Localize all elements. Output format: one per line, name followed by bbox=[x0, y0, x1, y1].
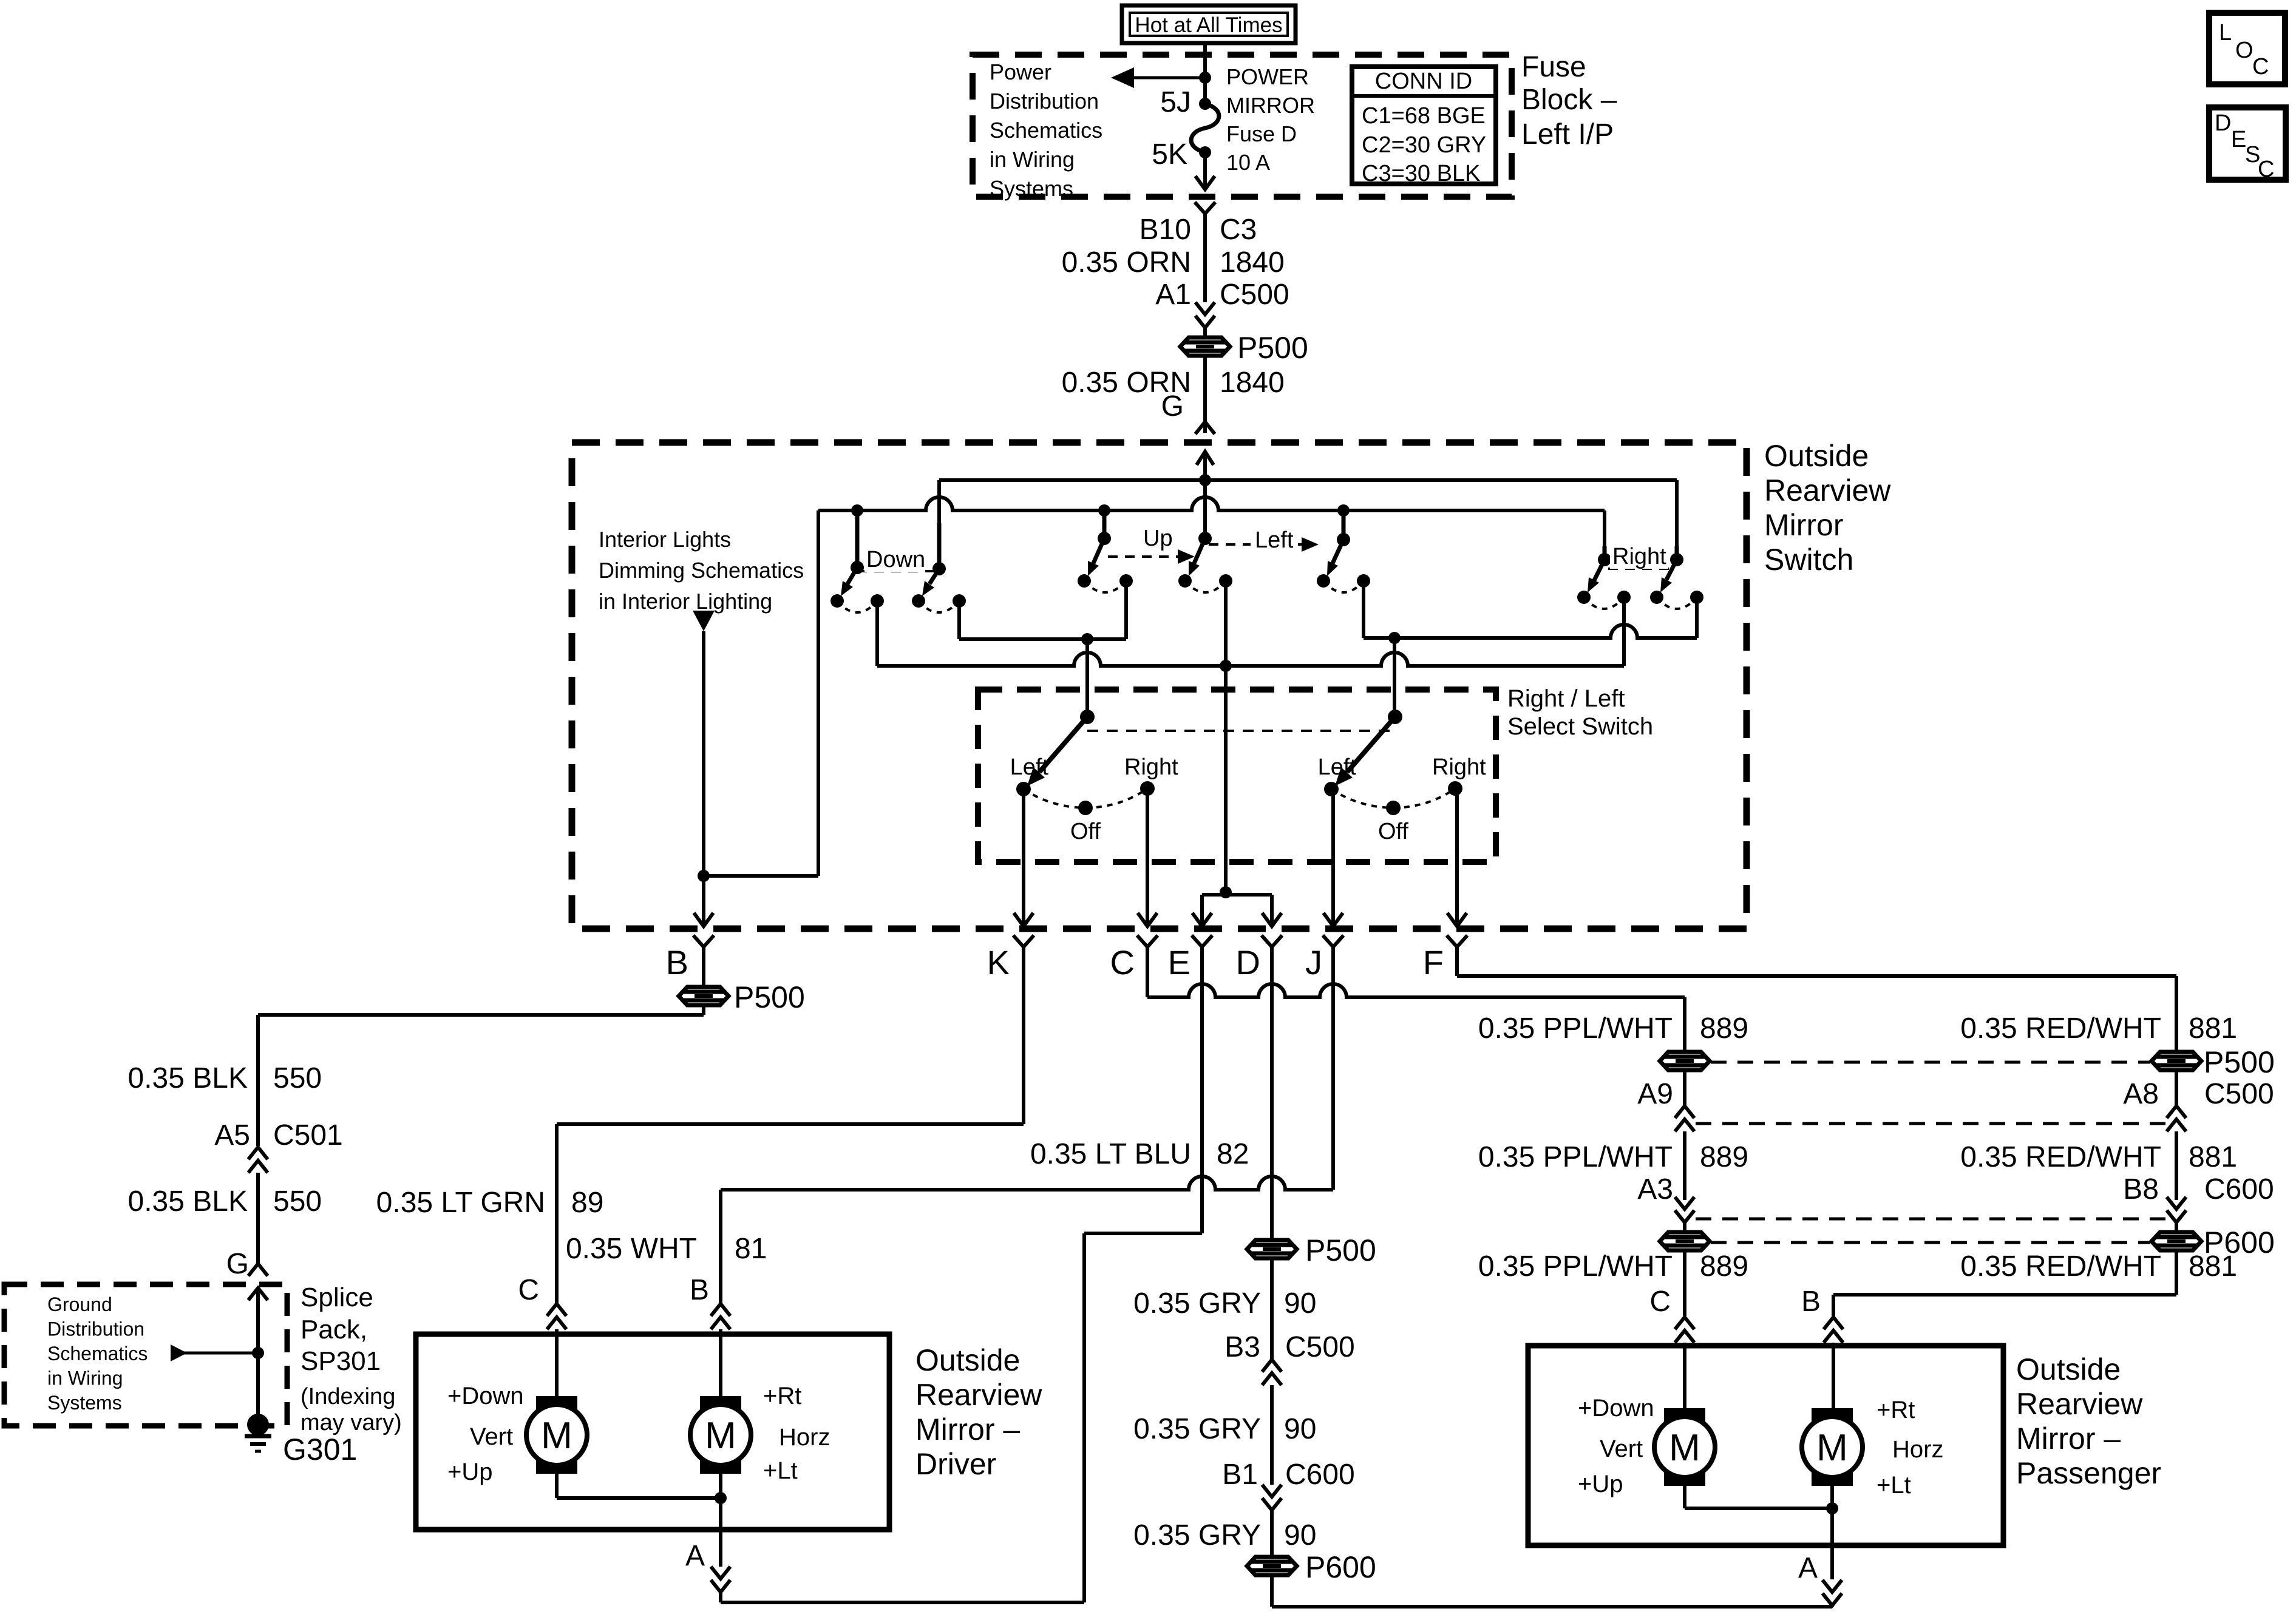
svg-text:C: C bbox=[2258, 157, 2274, 182]
svg-text:Off: Off bbox=[1070, 819, 1101, 844]
svg-text:Left: Left bbox=[1255, 527, 1294, 553]
wire: 0.35 ORN 1840 to switch bbox=[1203, 356, 1207, 422]
svg-text:Power: Power bbox=[990, 59, 1051, 84]
terminal J wire bbox=[1305, 795, 1343, 981]
svg-text:M: M bbox=[1669, 1427, 1700, 1469]
svg-text:881: 881 bbox=[2189, 1141, 2237, 1173]
svg-text:Switch: Switch bbox=[1764, 543, 1853, 577]
wire: select switch 2 feed bbox=[1393, 638, 1396, 717]
wire: driver common to E wire bbox=[721, 1601, 1084, 1604]
svg-text:P500: P500 bbox=[2204, 1045, 2275, 1079]
splice P500 on GRY wire bbox=[1247, 1240, 1297, 1258]
label: Outside Rearview Mirror Switch bbox=[1764, 439, 1891, 577]
svg-text:POWER: POWER bbox=[1226, 64, 1309, 89]
mech link Right bbox=[1608, 568, 1673, 570]
wire: C(switch) to passenger - goes right bbox=[1146, 947, 1149, 997]
splice P500 on ground wire bbox=[679, 987, 729, 1005]
svg-text:O: O bbox=[2235, 38, 2254, 63]
mech link select switches bbox=[1087, 730, 1390, 732]
svg-text:C500: C500 bbox=[1220, 279, 1289, 311]
label: Outside Rearview Mirror - Passenger bbox=[2016, 1352, 2161, 1490]
svg-text:M: M bbox=[541, 1415, 572, 1457]
label: Right / Left Select Switch bbox=[1507, 685, 1653, 740]
svg-text:Left I/P: Left I/P bbox=[1521, 118, 1614, 151]
wire: 0.35 BLK 550 to ground bbox=[702, 1006, 705, 1015]
svg-text:Left: Left bbox=[1010, 754, 1049, 780]
svg-text:B: B bbox=[1801, 1286, 1821, 1318]
svg-text:Right: Right bbox=[1124, 754, 1178, 780]
svg-text:881: 881 bbox=[2189, 1012, 2237, 1045]
svg-text:Horz: Horz bbox=[1892, 1436, 1943, 1463]
ground distribution dashed box bbox=[4, 1284, 287, 1426]
svg-text:0.35 WHT: 0.35 WHT bbox=[566, 1233, 697, 1265]
svg-text:Mirror –: Mirror – bbox=[915, 1412, 1020, 1446]
svg-text:Ground: Ground bbox=[47, 1293, 112, 1315]
svg-text:(Indexing: (Indexing bbox=[301, 1384, 395, 1409]
svg-text:C: C bbox=[518, 1274, 539, 1306]
wire: switch common to B bbox=[702, 631, 705, 925]
wire: 0.35 ORN 1840 circuit bbox=[1203, 214, 1207, 302]
wire: select switch 1 feed bbox=[1085, 639, 1089, 717]
svg-text:Pack,: Pack, bbox=[301, 1315, 367, 1344]
fuse: POWER MIRROR Fuse D 10 A bbox=[1191, 104, 1219, 152]
svg-text:Vert: Vert bbox=[1600, 1436, 1643, 1462]
switch Down element 2 bbox=[937, 480, 941, 498]
svg-text:Mirror: Mirror bbox=[1764, 508, 1844, 542]
svg-text:0.35 PPL/WHT: 0.35 PPL/WHT bbox=[1478, 1012, 1673, 1045]
svg-text:Dimming Schematics: Dimming Schematics bbox=[599, 558, 804, 583]
svg-text:K: K bbox=[987, 943, 1010, 981]
svg-text:C3: C3 bbox=[1220, 214, 1257, 246]
wire: E to driver mirror common - 0.35 LT BLU 82 bbox=[1200, 947, 1204, 1233]
svg-text:SP301: SP301 bbox=[301, 1346, 381, 1376]
svg-text:0.35 BLK: 0.35 BLK bbox=[128, 1185, 248, 1218]
svg-text:Schematics: Schematics bbox=[47, 1343, 148, 1364]
svg-text:C600: C600 bbox=[2204, 1173, 2274, 1205]
switch Left element 2 bbox=[1317, 510, 1370, 592]
svg-text:Right / Left: Right / Left bbox=[1507, 685, 1625, 712]
motor M horz driver bbox=[700, 1396, 741, 1411]
select common split to E and D bbox=[1220, 886, 1232, 898]
svg-text:Rearview: Rearview bbox=[1764, 473, 1891, 507]
svg-text:0.35 LT GRN: 0.35 LT GRN bbox=[376, 1187, 545, 1219]
power feed label box: Hot at All Times bbox=[1122, 5, 1296, 43]
svg-text:90: 90 bbox=[1284, 1519, 1316, 1551]
svg-text:0.35 PPL/WHT: 0.35 PPL/WHT bbox=[1478, 1141, 1673, 1173]
motor M vert passenger bbox=[1664, 1408, 1705, 1423]
arrow to Power Distribution Schematics bbox=[1130, 76, 1205, 80]
svg-text:Down: Down bbox=[866, 547, 925, 572]
svg-text:C: C bbox=[2252, 54, 2269, 80]
svg-text:881: 881 bbox=[2189, 1250, 2237, 1283]
svg-text:550: 550 bbox=[273, 1185, 322, 1218]
passenger mirror terminal A bbox=[1830, 1545, 1834, 1579]
svg-text:+Down: +Down bbox=[447, 1383, 524, 1409]
svg-text:G: G bbox=[226, 1248, 249, 1280]
svg-text:Systems: Systems bbox=[990, 176, 1073, 201]
svg-text:0.35 RED/WHT: 0.35 RED/WHT bbox=[1960, 1012, 2161, 1045]
arrow from ground distribution bbox=[171, 1344, 187, 1361]
wire: common return to bus 2 bbox=[704, 874, 818, 878]
svg-text:C: C bbox=[1110, 943, 1135, 981]
svg-text:D: D bbox=[1236, 943, 1260, 981]
svg-text:+Lt: +Lt bbox=[763, 1457, 798, 1484]
svg-text:0.35 PPL/WHT: 0.35 PPL/WHT bbox=[1478, 1250, 1673, 1283]
DESC reference box bbox=[2209, 107, 2286, 182]
svg-text:+Down: +Down bbox=[1578, 1395, 1654, 1422]
dashed link P600 bbox=[1711, 1241, 2150, 1244]
svg-text:90: 90 bbox=[1284, 1413, 1316, 1445]
terminal D wire bbox=[1236, 895, 1282, 981]
svg-text:Distribution: Distribution bbox=[990, 89, 1099, 114]
splice P500 PPL side bbox=[1660, 1052, 1710, 1070]
svg-text:81: 81 bbox=[735, 1233, 767, 1265]
terminal C wire bbox=[1110, 795, 1158, 981]
label: Ground Distribution Schematics in Wiring Systems bbox=[47, 1293, 148, 1414]
driver mirror terminal A bbox=[719, 1530, 722, 1567]
passenger motor labels bbox=[1578, 1395, 1943, 1499]
splice pack SP301 chevron bbox=[248, 1288, 268, 1300]
wire: RED/WHT to passenger B bbox=[1833, 1293, 2176, 1297]
switch Up element 1 bbox=[1078, 510, 1133, 592]
wire: passenger motors common bbox=[1683, 1486, 1686, 1508]
svg-text:A1: A1 bbox=[1155, 279, 1191, 311]
switch Left element 1 (fed from bus 1) bbox=[1178, 532, 1232, 592]
svg-text:C501: C501 bbox=[273, 1119, 343, 1151]
svg-text:C3=30 BLK: C3=30 BLK bbox=[1362, 161, 1480, 186]
bus line 2 (return) bbox=[818, 497, 1605, 510]
off-page arrow from Interior Lights bbox=[693, 611, 715, 631]
svg-text:C2=30 GRY: C2=30 GRY bbox=[1362, 132, 1486, 158]
svg-text:A5: A5 bbox=[214, 1119, 250, 1151]
wire: K to driver mirror C - 0.35 LT GRN 89 bbox=[1022, 947, 1025, 1124]
svg-text:in Interior Lighting: in Interior Lighting bbox=[599, 589, 772, 614]
driver motor labels bbox=[447, 1383, 830, 1485]
wire: Left1 contact to select common bbox=[1224, 581, 1228, 892]
svg-text:B10: B10 bbox=[1140, 214, 1191, 246]
svg-text:Outside: Outside bbox=[2016, 1352, 2121, 1386]
dashed connector line C600 bbox=[1696, 1218, 2165, 1221]
fuse block dashed box: Fuse Block - Left I/P bbox=[973, 55, 1512, 197]
svg-text:1840: 1840 bbox=[1220, 367, 1285, 399]
svg-text:C600: C600 bbox=[1285, 1459, 1355, 1491]
label: Splice Pack SP301 bbox=[301, 1283, 402, 1436]
svg-text:0.35 LT BLU: 0.35 LT BLU bbox=[1030, 1138, 1191, 1170]
svg-text:M: M bbox=[705, 1415, 736, 1457]
svg-text:Right: Right bbox=[1612, 544, 1666, 569]
svg-text:Outside: Outside bbox=[915, 1343, 1020, 1377]
splice P500 RED side bbox=[2152, 1052, 2201, 1070]
svg-text:Left: Left bbox=[1318, 754, 1357, 780]
label: Fuse Block - Left I/P bbox=[1521, 51, 1617, 151]
svg-text:E: E bbox=[1168, 943, 1190, 981]
wire: fuse output bbox=[1203, 152, 1207, 189]
wire: Down2/Up1 output link bbox=[957, 601, 961, 639]
switch Right element 2 bbox=[1675, 480, 1679, 560]
mech link Down bbox=[857, 570, 939, 572]
svg-text:M: M bbox=[1816, 1427, 1848, 1469]
select switch 2 (passenger) bbox=[1318, 710, 1487, 844]
svg-text:Horz: Horz bbox=[779, 1424, 830, 1451]
svg-text:Distribution: Distribution bbox=[47, 1318, 144, 1340]
mech link Up with arrow bbox=[1108, 555, 1183, 558]
terminal F wire bbox=[1423, 795, 1467, 981]
switch Right element 1 bbox=[1603, 510, 1606, 560]
CONN ID table bbox=[1352, 67, 1496, 186]
svg-text:0.35 GRY: 0.35 GRY bbox=[1133, 1413, 1261, 1445]
right/left select switch dashed box bbox=[978, 690, 1496, 862]
motor M horz passenger bbox=[1812, 1408, 1853, 1423]
svg-text:0.35 GRY: 0.35 GRY bbox=[1133, 1287, 1261, 1320]
wire: 0.35 PPL/WHT 889 (passenger vert) bbox=[1683, 997, 1686, 1052]
svg-text:A: A bbox=[685, 1540, 705, 1572]
svg-text:0.35 GRY: 0.35 GRY bbox=[1133, 1519, 1261, 1551]
svg-text:may vary): may vary) bbox=[301, 1410, 402, 1436]
wire: Left2/Right2 output link bbox=[1362, 581, 1365, 638]
svg-text:+Up: +Up bbox=[1578, 1471, 1623, 1497]
outside rearview mirror passenger box bbox=[1528, 1346, 2003, 1545]
svg-text:Splice: Splice bbox=[301, 1283, 373, 1312]
svg-text:Hot at All Times: Hot at All Times bbox=[1135, 13, 1282, 37]
svg-text:B: B bbox=[666, 943, 688, 981]
svg-text:5K: 5K bbox=[1152, 138, 1187, 171]
svg-text:+Lt: +Lt bbox=[1877, 1472, 1911, 1499]
svg-text:Off: Off bbox=[1378, 819, 1408, 844]
svg-text:B1: B1 bbox=[1222, 1459, 1258, 1491]
svg-text:Mirror –: Mirror – bbox=[2016, 1422, 2121, 1456]
svg-text:B: B bbox=[690, 1274, 709, 1306]
wire: GRY to passenger mirror A bbox=[1272, 1605, 1832, 1609]
svg-text:E: E bbox=[2231, 127, 2246, 152]
svg-text:889: 889 bbox=[1700, 1141, 1748, 1173]
svg-text:Driver: Driver bbox=[915, 1447, 996, 1481]
svg-text:P500: P500 bbox=[734, 980, 805, 1014]
svg-text:550: 550 bbox=[273, 1062, 322, 1094]
svg-text:5J: 5J bbox=[1160, 86, 1191, 118]
motor M vert driver bbox=[536, 1396, 577, 1411]
dashed connector line C500 bbox=[1696, 1122, 2165, 1125]
select switch 1 (driver) bbox=[1010, 710, 1179, 844]
ground G301 bbox=[247, 1414, 269, 1436]
splice P500 bbox=[1180, 337, 1230, 356]
svg-text:MIRROR: MIRROR bbox=[1226, 93, 1315, 118]
svg-text:A9: A9 bbox=[1637, 1078, 1673, 1110]
svg-text:D: D bbox=[2215, 110, 2231, 136]
svg-text:82: 82 bbox=[1217, 1138, 1249, 1170]
svg-text:889: 889 bbox=[1700, 1012, 1748, 1045]
svg-text:P600: P600 bbox=[1305, 1550, 1376, 1584]
svg-text:90: 90 bbox=[1284, 1287, 1316, 1320]
svg-text:Rearview: Rearview bbox=[2016, 1387, 2143, 1421]
label: POWER MIRROR Fuse D 10 A bbox=[1226, 64, 1315, 175]
svg-text:B3: B3 bbox=[1224, 1331, 1260, 1363]
svg-text:Rearview: Rearview bbox=[915, 1378, 1042, 1412]
terminal B wire bbox=[693, 935, 714, 947]
svg-text:C500: C500 bbox=[2204, 1078, 2274, 1110]
svg-text:0.35 RED/WHT: 0.35 RED/WHT bbox=[1960, 1141, 2161, 1173]
svg-text:Outside: Outside bbox=[1764, 439, 1869, 473]
svg-text:+Rt: +Rt bbox=[1877, 1397, 1915, 1423]
mech link Left with arrow bbox=[1209, 543, 1305, 546]
svg-text:Systems: Systems bbox=[47, 1392, 122, 1414]
outside rearview mirror driver box bbox=[416, 1334, 889, 1530]
wire: feed from Hot at All Times into fuse block bbox=[1203, 43, 1207, 104]
wire: D to passenger common bbox=[1270, 947, 1274, 1239]
svg-text:G: G bbox=[1161, 390, 1184, 422]
svg-text:0.35 RED/WHT: 0.35 RED/WHT bbox=[1960, 1250, 2161, 1283]
terminal E wire bbox=[1168, 895, 1212, 981]
wire: bottom output bus bbox=[875, 601, 879, 666]
svg-text:J: J bbox=[1305, 943, 1322, 981]
svg-text:L: L bbox=[2219, 20, 2232, 46]
splice P600 on GRY wire bbox=[1247, 1557, 1297, 1575]
switch Down element 1 bbox=[830, 510, 884, 612]
wire: 0.35 RED/WHT 881 (passenger horz) bbox=[2175, 976, 2178, 1052]
svg-text:Fuse D: Fuse D bbox=[1226, 121, 1297, 146]
label: Outside Rearview Mirror - Driver bbox=[915, 1343, 1042, 1481]
svg-text:B8: B8 bbox=[2123, 1173, 2159, 1205]
svg-text:Up: Up bbox=[1143, 526, 1173, 551]
dashed link P500 bbox=[1711, 1061, 2150, 1064]
svg-text:Vert: Vert bbox=[470, 1423, 513, 1450]
svg-text:Interior Lights: Interior Lights bbox=[599, 527, 731, 552]
outside rearview mirror switch dashed box bbox=[572, 442, 1747, 929]
svg-text:889: 889 bbox=[1700, 1250, 1748, 1283]
svg-text:Right: Right bbox=[1432, 754, 1486, 780]
svg-text:+Rt: +Rt bbox=[763, 1383, 801, 1409]
label: Interior Lights Dimming Schematics in Interior Lighting bbox=[599, 527, 804, 614]
svg-text:Passenger: Passenger bbox=[2016, 1456, 2161, 1490]
svg-text:A: A bbox=[1798, 1552, 1818, 1584]
svg-text:in Wiring: in Wiring bbox=[990, 147, 1075, 172]
wire: driver motors common bbox=[555, 1474, 559, 1498]
label: Power Distribution Schematics in Wiring Systems bbox=[990, 59, 1102, 201]
terminal K wire bbox=[987, 795, 1034, 981]
svg-text:CONN ID: CONN ID bbox=[1375, 69, 1472, 94]
svg-text:A3: A3 bbox=[1637, 1173, 1673, 1205]
connector C3 terminal B10 bbox=[1195, 202, 1215, 214]
bus line 1 (feed) bbox=[939, 478, 1677, 482]
svg-text:C1=68 BGE: C1=68 BGE bbox=[1362, 103, 1486, 129]
svg-text:Block –: Block – bbox=[1521, 84, 1617, 116]
svg-text:+Up: +Up bbox=[447, 1459, 493, 1485]
svg-text:89: 89 bbox=[571, 1187, 603, 1219]
svg-text:Fuse: Fuse bbox=[1521, 51, 1586, 83]
svg-text:in Wiring: in Wiring bbox=[47, 1368, 123, 1389]
svg-text:1840: 1840 bbox=[1220, 246, 1285, 279]
svg-text:C: C bbox=[1649, 1286, 1671, 1318]
svg-text:G301: G301 bbox=[283, 1432, 357, 1466]
splice P600 PPL side bbox=[1660, 1232, 1710, 1250]
svg-text:0.35 BLK: 0.35 BLK bbox=[128, 1062, 248, 1094]
svg-text:P500: P500 bbox=[1305, 1233, 1376, 1267]
svg-text:Schematics: Schematics bbox=[990, 118, 1102, 143]
svg-text:Select Switch: Select Switch bbox=[1507, 713, 1653, 740]
wire: F to passenger - goes right bbox=[1455, 947, 1459, 976]
svg-text:P500: P500 bbox=[1237, 331, 1308, 365]
svg-text:F: F bbox=[1423, 943, 1444, 981]
wire: J to driver mirror B - 0.35 WHT 81 bbox=[1331, 947, 1335, 1190]
wire: feed arrow into switch bbox=[1197, 452, 1214, 465]
svg-text:C500: C500 bbox=[1285, 1331, 1355, 1363]
svg-text:A8: A8 bbox=[2123, 1078, 2159, 1110]
node 5J junction dot bbox=[1199, 72, 1211, 84]
svg-text:0.35 ORN: 0.35 ORN bbox=[1062, 246, 1191, 279]
splice P600 RED side bbox=[2152, 1232, 2201, 1250]
LOC reference box bbox=[2209, 13, 2285, 84]
svg-text:10 A: 10 A bbox=[1226, 150, 1270, 175]
